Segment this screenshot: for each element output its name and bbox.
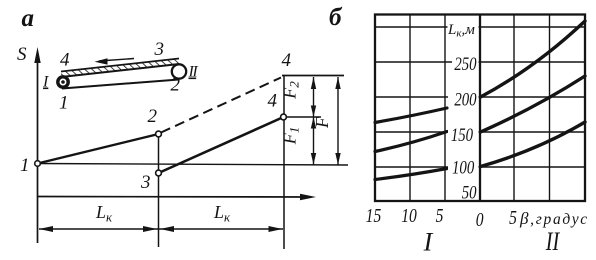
dashed line 2-4' (161, 78, 281, 133)
tick line at point 4 level (284, 116, 321, 118)
curve I-3 (left bottom) (375, 169, 447, 180)
svg-text:2: 2 (171, 75, 181, 96)
vertical gridlines (410, 15, 550, 202)
point 2 (156, 131, 162, 137)
x-axis arrow line (38, 196, 311, 199)
curve I-2 (left middle) (375, 132, 447, 152)
extension line x=157 (158, 134, 160, 247)
curve I-1 (left top) (375, 108, 447, 123)
belt band top edge (61, 59, 179, 72)
belt direction arrow (99, 59, 134, 62)
point 4 (281, 114, 287, 120)
point 1 (35, 161, 41, 167)
belt bottom run (62, 80, 179, 89)
label column white-outs (448, 18, 479, 197)
svg-text:S: S (17, 44, 27, 65)
svg-text:5: 5 (509, 206, 517, 228)
svg-text:4: 4 (60, 50, 70, 71)
grid frame (375, 15, 585, 202)
svg-text:200: 200 (454, 89, 477, 110)
svg-text:5: 5 (436, 204, 444, 226)
svg-text:50: 50 (462, 182, 477, 203)
svg-text:1: 1 (20, 155, 30, 176)
svg-text:15: 15 (366, 204, 382, 226)
svg-text:I: I (42, 74, 49, 91)
svg-text:4: 4 (282, 50, 292, 71)
svg-text:F: F (312, 116, 332, 129)
svg-text:а: а (22, 5, 35, 32)
svg-text:II: II (545, 228, 560, 255)
svg-text:250: 250 (454, 53, 477, 74)
conveyor belt top run (hatched band) (61, 59, 179, 78)
F2/F1 dimension line (313, 77, 315, 165)
belt band bottom edge (61, 64, 179, 77)
svg-text:0: 0 (476, 208, 484, 230)
svg-text:I: I (423, 228, 434, 256)
baseline from point 1 (37, 164, 348, 166)
curve II-3 (right bottom) (481, 122, 586, 167)
line 1-2 (38, 134, 159, 164)
svg-text:Lк,м: Lк,м (447, 22, 475, 40)
svg-text:3: 3 (154, 39, 165, 60)
svg-text:1: 1 (59, 93, 69, 114)
svg-text:4: 4 (268, 91, 278, 112)
svg-text:б: б (329, 4, 343, 31)
pulley I (left) (58, 77, 68, 87)
curve II-1 (right top) (481, 21, 586, 97)
pulley II (right) (172, 64, 186, 78)
curve II-2 (right middle) (481, 76, 586, 132)
F dimension line (337, 77, 339, 165)
bottom dimension line Lk spans (39, 228, 283, 230)
zero axis line (479, 15, 481, 202)
S axis arrowhead (34, 47, 40, 63)
svg-text:10: 10 (401, 204, 417, 226)
line 3-4 (159, 117, 284, 173)
point 3 (156, 170, 162, 176)
svg-text:β,градус: β,градус (519, 209, 589, 228)
x-axis arrowhead (300, 194, 316, 200)
svg-text:3: 3 (140, 172, 151, 193)
svg-text:100: 100 (452, 157, 475, 178)
S axis (37, 55, 39, 243)
svg-text:150: 150 (451, 124, 474, 145)
svg-text:2: 2 (148, 106, 158, 127)
top line from corner 4' (282, 75, 344, 77)
horizontal gridlines (375, 27, 585, 167)
extension line x=284 (283, 76, 285, 250)
